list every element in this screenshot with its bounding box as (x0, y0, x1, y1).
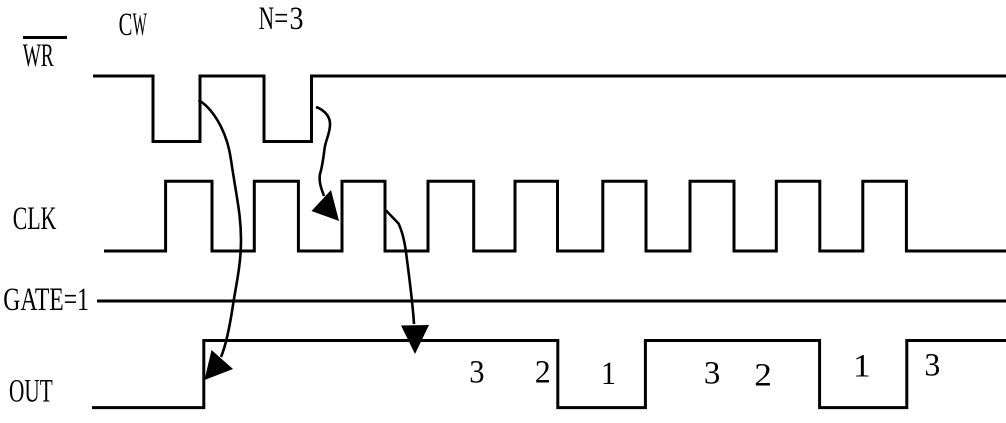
svg-text:3: 3 (704, 356, 721, 392)
svg-text:GATE=1: GATE=1 (3, 282, 89, 318)
svg-text:N: N (259, 1, 274, 37)
svg-text:3: 3 (924, 347, 940, 383)
svg-text:C: C (119, 7, 133, 43)
svg-text:CLK: CLK (13, 201, 57, 237)
svg-text:WR: WR (23, 38, 54, 74)
svg-text:1: 1 (853, 349, 871, 385)
svg-text:1: 1 (601, 356, 616, 392)
svg-text:2: 2 (535, 355, 551, 391)
svg-text:2: 2 (754, 357, 772, 393)
svg-text:3: 3 (290, 1, 304, 37)
svg-text:W: W (133, 7, 148, 43)
svg-text:OUT: OUT (9, 374, 53, 410)
svg-text:=: = (274, 1, 288, 37)
svg-text:3: 3 (469, 354, 484, 390)
